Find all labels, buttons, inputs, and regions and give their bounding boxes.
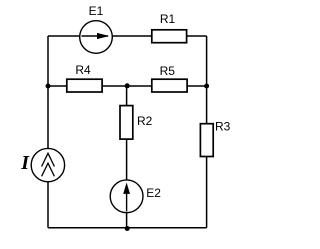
wire bottom: [48, 227, 207, 229]
svg-text:R2: R2: [137, 114, 153, 128]
resistor R3: [200, 124, 213, 157]
resistor R2: [120, 106, 133, 140]
node junction right (R5 / right branch): [204, 84, 209, 89]
resistor R4: [67, 79, 102, 92]
wire right branch: [206, 36, 208, 228]
node junction center (R4/R5/R2): [125, 83, 130, 88]
resistor R5: [152, 79, 187, 92]
wire left branch: [47, 36, 49, 228]
wire center branch (R2/E2): [126, 86, 128, 228]
svg-text:I: I: [20, 152, 30, 174]
svg-text:R4: R4: [75, 63, 91, 77]
wire middle row (R4-R5 row): [48, 85, 207, 87]
current source I: [31, 148, 64, 181]
node junction bottom (E2 / bottom wire): [125, 226, 130, 231]
svg-text:E2: E2: [146, 186, 161, 200]
svg-text:R3: R3: [215, 119, 231, 133]
voltage source E1: [80, 21, 113, 54]
svg-text:R5: R5: [160, 64, 176, 78]
svg-text:R1: R1: [160, 12, 176, 26]
voltage source E2: [110, 180, 143, 213]
resistor R1: [152, 30, 187, 43]
svg-text:E1: E1: [89, 4, 104, 18]
node junction left (R4 row / left branch): [46, 84, 51, 89]
wire top (node between E1, R1, corners): [48, 35, 207, 37]
